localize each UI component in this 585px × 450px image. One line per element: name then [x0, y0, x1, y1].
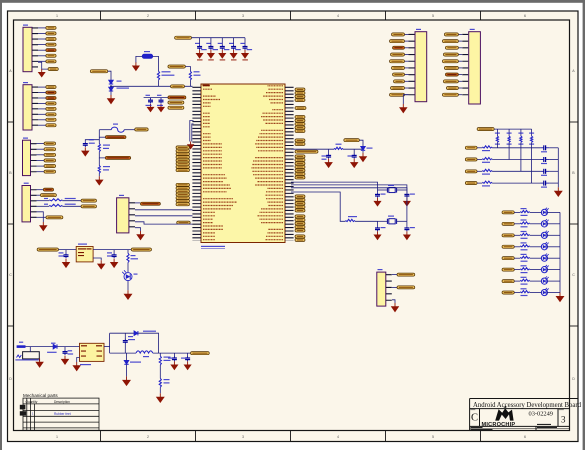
resistor RL3	[520, 233, 529, 235]
wire C22 drop	[64, 347, 66, 350]
port USB VBUS A	[105, 136, 126, 139]
port J7 net 8	[443, 80, 458, 83]
wire pullup 1 to row	[496, 142, 498, 147]
filter cap CF1	[540, 145, 550, 150]
port J5 net 3	[46, 38, 56, 41]
wire C21 drop	[113, 250, 115, 254]
resistor R12	[49, 204, 62, 206]
wire D4 down	[110, 91, 112, 95]
RP1 value	[495, 144, 500, 145]
wire fuse left	[99, 129, 111, 131]
wire D2 down	[362, 151, 364, 153]
wire LED1 c	[547, 211, 560, 213]
R5A designator	[164, 357, 171, 358]
wire VCP rail b	[343, 148, 363, 150]
diode D2	[361, 147, 365, 151]
svg-text:MICROCHIP: MICROCHIP	[482, 422, 516, 428]
varistor VR1	[142, 54, 152, 58]
wire Y2 left	[378, 189, 388, 191]
port PMA1	[176, 187, 190, 190]
port J7 net 5	[442, 60, 458, 63]
U3 internal text	[78, 248, 92, 256]
CF4 value	[541, 187, 547, 188]
svg-text:5: 5	[432, 14, 434, 18]
wire Y2 c2	[406, 190, 408, 193]
port J6 net 3	[393, 46, 405, 49]
port VBUS sense	[171, 85, 185, 88]
svg-text:5: 5	[432, 435, 434, 439]
R12 designator	[44, 204, 48, 205]
C1 value	[201, 49, 207, 50]
resistor R13	[334, 147, 343, 149]
wire row 3 a	[477, 170, 482, 172]
wire U2 gnd	[77, 358, 80, 363]
port PMD0	[176, 169, 190, 172]
port i2c row 3	[465, 170, 477, 173]
resistor RL5	[520, 256, 529, 258]
CF1 value	[541, 151, 547, 152]
D5 designator	[51, 343, 56, 344]
resistor R14	[346, 219, 355, 221]
wire C7 top	[124, 333, 126, 339]
RL6 designator	[521, 265, 527, 266]
J6 pin wires	[404, 34, 409, 94]
power net text C2	[208, 59, 214, 60]
connector J4	[23, 85, 32, 130]
connector J5	[23, 27, 32, 71]
ground J5	[39, 69, 45, 77]
port J6 net 4	[391, 53, 405, 56]
port J4 net 2	[46, 91, 56, 94]
port J2 net 3	[81, 199, 97, 202]
wire SOSCO	[291, 185, 407, 190]
C21 value	[107, 255, 113, 256]
port J3 net 3	[44, 153, 56, 156]
wire LED6 b	[530, 269, 542, 271]
pull-up resistor RP2	[508, 136, 510, 142]
port U1 right 21	[295, 195, 305, 198]
wire C3 drop	[150, 98, 152, 99]
RS2 value	[482, 162, 490, 163]
port J6 net 8	[394, 80, 405, 83]
C10 value	[322, 159, 327, 160]
C9 value	[181, 358, 186, 359]
ground D1	[125, 290, 132, 299]
resistor R10	[157, 71, 159, 80]
wire pullup 4 top	[531, 129, 533, 136]
wire pullup 1 top	[496, 129, 498, 136]
D2 part text	[367, 148, 373, 149]
capacitor C6	[83, 142, 88, 147]
capacitor C5	[243, 45, 248, 50]
ground C16	[404, 198, 410, 206]
port LED7	[502, 280, 514, 283]
port U1 right 24	[295, 205, 305, 208]
C4 designator	[229, 43, 234, 44]
port J7 net 3	[445, 46, 458, 49]
connector J8	[377, 272, 386, 306]
svg-text:C: C	[9, 273, 12, 277]
port J7 net 6	[444, 66, 458, 69]
capacitor C3	[148, 98, 153, 103]
port J6 net 2	[390, 40, 405, 43]
wire OSCI drop	[291, 192, 346, 221]
U2 part number	[80, 364, 91, 365]
wire 5V bus b	[153, 352, 191, 354]
wire row 3 c	[550, 170, 559, 172]
U1 pin name text right column	[251, 86, 283, 240]
power jack J9	[17, 347, 26, 358]
ground R0B	[96, 176, 103, 185]
RP4 value	[529, 144, 534, 145]
U2 internal text	[81, 345, 102, 356]
wire D7 down	[126, 365, 128, 377]
ground C21	[111, 259, 118, 268]
wire R14 to Y1	[355, 220, 378, 222]
wire reg out	[93, 249, 131, 251]
RL2 value	[521, 226, 528, 227]
port J7 net 1	[444, 33, 458, 36]
svg-text:Mechanical parts: Mechanical parts	[23, 393, 58, 398]
U1 left pins	[192, 87, 201, 241]
pull-up resistor RP3	[520, 136, 522, 142]
pull-up resistor RP1	[496, 136, 498, 142]
RL8 designator	[521, 288, 527, 289]
C5 value	[157, 105, 163, 106]
ground C15	[404, 231, 410, 239]
port U1 right 17	[295, 165, 305, 168]
port U1 right 25	[295, 209, 305, 212]
wire J8 pin3	[392, 286, 397, 288]
port U1 right 2	[295, 92, 305, 95]
RL4 designator	[521, 242, 527, 243]
resistor R5B	[159, 378, 161, 387]
wire C3 drop	[221, 38, 223, 45]
R0A value	[103, 148, 109, 149]
port USB VBUS B	[105, 156, 130, 159]
regulator U2 body	[80, 343, 105, 361]
R12 net text	[65, 204, 76, 205]
C14 value	[381, 227, 386, 228]
grey surround left	[0, 0, 2, 450]
port J4 net 6	[46, 113, 56, 116]
wire pullup rail	[494, 128, 531, 130]
svg-text:4: 4	[337, 14, 339, 18]
wire Y1 c2	[406, 221, 408, 226]
port LED2	[502, 222, 514, 225]
ground C20	[63, 259, 70, 268]
C15 value	[410, 227, 415, 228]
diode D5	[53, 344, 57, 348]
C6 designator	[89, 139, 94, 140]
wire OSCO rail	[291, 187, 400, 189]
R0B value	[103, 169, 109, 170]
port J5 net 2	[46, 32, 56, 35]
port J6 net 10	[390, 93, 405, 96]
wire U3 gnd tab	[93, 258, 101, 260]
capacitor C1	[197, 45, 202, 50]
C3 designator	[218, 43, 223, 44]
LED D6	[541, 242, 548, 250]
RL2 designator	[521, 219, 527, 220]
ground D2	[360, 153, 367, 162]
port U1 right 19	[295, 172, 305, 175]
capacitor C3	[220, 45, 225, 50]
resistor R3	[127, 253, 129, 262]
port U1 right 31	[295, 235, 305, 238]
U1 left PMA port cluster	[176, 183, 190, 206]
J4 pins	[32, 87, 38, 127]
C5 value	[247, 49, 253, 50]
capacitor C11	[352, 154, 357, 159]
ground C8	[171, 361, 177, 369]
wire port drop	[359, 140, 363, 149]
series resistor RS2	[482, 158, 492, 160]
wire C20 drop	[65, 250, 67, 254]
designator J3	[23, 138, 28, 139]
port J3 net 1	[44, 142, 56, 145]
wire LED5 b	[530, 257, 542, 259]
D4 part number	[117, 88, 130, 89]
port U1 right 30	[295, 229, 305, 232]
ground D7	[123, 376, 130, 385]
R11 designator	[44, 198, 48, 199]
pull-up resistor RP4	[530, 136, 532, 142]
port U1 right 7	[295, 119, 305, 122]
R2 value	[194, 75, 201, 76]
R3 value	[131, 258, 139, 259]
power pin arrow VSS	[188, 142, 194, 149]
wire J1 PGD	[135, 215, 193, 217]
VR1 designator	[144, 51, 150, 52]
wire sense vertical b	[99, 152, 105, 158]
ground C22	[62, 356, 69, 365]
J2 pins	[31, 189, 37, 218]
resistor RL8	[520, 291, 529, 293]
wire row 1 c	[550, 147, 559, 149]
R0B designator	[103, 166, 110, 167]
RP2 designator	[507, 133, 512, 134]
wire LED6 a	[514, 269, 520, 271]
port U1 right 1	[295, 88, 305, 91]
wire C5 drop	[244, 38, 246, 45]
wire row 2 a	[477, 159, 482, 161]
wire to U2	[57, 346, 79, 348]
wire LED4 a	[514, 246, 520, 248]
svg-text:6: 6	[524, 14, 526, 18]
svg-text:Rubber feet: Rubber feet	[54, 412, 71, 416]
power net text C4	[231, 59, 237, 60]
R5A value	[164, 360, 171, 361]
port PMD2	[176, 162, 190, 165]
wire LED8 c	[547, 292, 560, 294]
port J7 net 4	[443, 53, 458, 56]
wire LED6 c	[547, 269, 560, 271]
wire sense vertical a	[98, 130, 100, 144]
svg-text:2: 2	[147, 435, 149, 439]
wire D1 down	[127, 281, 129, 291]
connector J3	[23, 140, 31, 175]
svg-text:3: 3	[561, 415, 566, 425]
port J6 net 7	[393, 73, 405, 76]
resistor R0A	[98, 144, 100, 152]
ground C9	[185, 361, 191, 369]
wire cap rail	[192, 37, 246, 39]
wire LED1 a	[514, 211, 520, 213]
LED D8	[541, 265, 548, 273]
capacitor C20	[64, 253, 69, 258]
capacitor C12	[375, 193, 380, 198]
R14 value	[348, 216, 357, 217]
C2 designator	[206, 43, 211, 44]
port U1 right 14	[295, 155, 305, 158]
ground resistor network	[555, 187, 562, 196]
R10 value	[162, 75, 175, 76]
ground VR1	[133, 62, 139, 70]
wire LED2 c	[547, 223, 560, 225]
port MCLR	[140, 202, 160, 205]
wire VSS routing	[190, 121, 194, 142]
J7 pins	[462, 34, 468, 96]
ground C1	[197, 50, 203, 58]
J5 pins	[32, 27, 38, 67]
wire fuse right	[124, 129, 135, 131]
diode D4a	[109, 80, 113, 84]
crystal Y1	[387, 219, 396, 224]
wire top branch b	[138, 333, 159, 353]
svg-text:D: D	[572, 377, 575, 381]
port pullup rail	[477, 128, 494, 131]
port U1 right 29	[295, 225, 305, 228]
C21 designator	[107, 252, 112, 253]
port J6 net 5	[390, 60, 405, 63]
port J4 net 4	[46, 102, 56, 105]
resistor R11	[49, 199, 62, 201]
RL7 designator	[521, 277, 527, 278]
wire LED7 a	[514, 280, 520, 282]
C12 value	[381, 194, 386, 195]
connector J1 ICSP	[117, 198, 129, 233]
C22 value	[68, 353, 74, 354]
wire row 4 b	[492, 182, 540, 184]
filter cap CF4	[540, 181, 550, 186]
microcontroller U1 PIC24FJ256DA210 body	[201, 84, 285, 243]
port U1 left a	[177, 221, 191, 224]
port J5 net 8	[48, 68, 58, 71]
svg-text:3: 3	[242, 14, 244, 18]
wire row 2 b	[492, 159, 540, 161]
port J4 net 3	[46, 97, 56, 100]
port VBUS fuse	[135, 128, 149, 131]
resistor R5A	[159, 356, 161, 365]
wire LED4 b	[530, 246, 542, 248]
port PMD3	[176, 159, 190, 162]
wire C5 drop	[160, 98, 162, 99]
designator J4	[23, 82, 28, 83]
port J5 net 7	[46, 60, 56, 63]
port U1 right 23	[295, 202, 305, 205]
port U1 right 16	[295, 162, 305, 165]
C2 value	[213, 49, 219, 50]
wire pullup 3 to row	[520, 142, 522, 171]
capacitor C5	[159, 98, 164, 103]
mechanical parts table	[23, 398, 99, 430]
RP3 designator	[518, 133, 523, 134]
U1 name header	[203, 85, 210, 87]
capacitor C14	[375, 226, 380, 231]
port PMD5	[176, 152, 190, 155]
J1 pins	[129, 202, 135, 228]
port VBUS	[168, 65, 186, 68]
svg-text:C: C	[471, 413, 478, 424]
RS1 value	[482, 150, 490, 151]
U3 designator	[78, 244, 87, 245]
R5B value	[164, 382, 170, 383]
wire C2 drop	[210, 38, 212, 45]
D1 designator	[134, 274, 138, 275]
LED D10	[541, 288, 548, 296]
wire LED7 c	[547, 280, 560, 282]
J5 pin wires	[38, 28, 48, 69]
ground C6	[82, 147, 89, 156]
wire LED3 a	[514, 234, 520, 236]
wire row 1 b	[492, 147, 540, 149]
ground C3	[219, 50, 225, 58]
ground C5	[158, 104, 164, 112]
C4 value	[235, 49, 241, 50]
wire J6 gnd	[403, 95, 408, 104]
wire row 2 c	[550, 159, 559, 161]
C11 designator	[348, 155, 353, 156]
wire top branch a	[110, 332, 135, 334]
wire row 3 b	[492, 170, 540, 172]
wire node vertical	[109, 333, 111, 353]
R10 designator	[162, 71, 171, 72]
D5 part text	[47, 352, 57, 353]
C7 designator	[128, 336, 133, 337]
designator J8	[378, 269, 383, 270]
wire Y1 c1	[377, 221, 379, 226]
capacitor C22	[63, 350, 68, 355]
U1 right pins	[285, 87, 294, 241]
port J4 net 7	[46, 118, 56, 121]
regulator U3 body	[76, 247, 93, 262]
wire LED gnd bus	[559, 212, 561, 292]
port PMD6	[176, 149, 190, 152]
capacitor C2	[208, 45, 213, 50]
port J6 net 1	[392, 33, 405, 36]
ground J6	[400, 104, 407, 113]
CF2 value	[541, 163, 547, 164]
wire jack sleeve	[38, 359, 40, 361]
wire OSCO drop	[400, 188, 407, 222]
svg-text:3: 3	[242, 435, 244, 439]
port U1 right 10	[295, 129, 305, 132]
svg-text:D: D	[9, 377, 12, 381]
wire LED branch	[127, 250, 129, 254]
LED D4	[541, 219, 548, 227]
port J7 net 9	[446, 87, 458, 90]
zener D7	[124, 361, 128, 365]
wire C9 drop	[187, 353, 189, 357]
wire LED3 b	[530, 234, 542, 236]
port J7 net 10	[442, 93, 458, 96]
wire LED1 b	[530, 211, 542, 213]
port J2 net 1	[43, 188, 53, 191]
LED D5	[541, 231, 548, 239]
port 3V3	[131, 248, 151, 251]
port PMD4	[176, 156, 190, 159]
